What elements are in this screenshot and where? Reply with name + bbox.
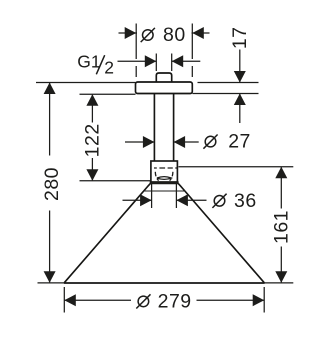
- svg-text:280: 280: [41, 167, 63, 201]
- svg-text:G1: G1: [77, 52, 100, 72]
- svg-text:17: 17: [229, 26, 251, 49]
- svg-text:2: 2: [104, 57, 114, 77]
- svg-text:36: 36: [234, 190, 257, 212]
- svg-text:80: 80: [163, 24, 186, 46]
- svg-text:161: 161: [271, 210, 293, 244]
- svg-text:279: 279: [158, 290, 192, 312]
- svg-text:122: 122: [82, 123, 104, 157]
- svg-text:27: 27: [228, 131, 251, 153]
